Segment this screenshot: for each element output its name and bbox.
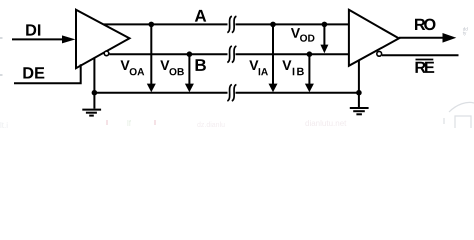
receiver enable bubble xyxy=(377,51,382,56)
DI arrowhead xyxy=(62,35,75,43)
measurement arrow VIA xyxy=(272,24,274,85)
wire RE enable xyxy=(382,54,459,56)
ground symbol receiver xyxy=(350,93,369,115)
junction dot B at VOB xyxy=(187,51,193,57)
measurement arrow VOB xyxy=(188,54,190,85)
wire DI input xyxy=(12,38,64,40)
label A xyxy=(195,10,206,22)
RO arrowhead xyxy=(443,33,457,43)
junction dot B at VIB xyxy=(307,51,313,57)
line A break symbol xyxy=(227,16,236,32)
wire driver ground branch xyxy=(93,57,95,92)
label B xyxy=(196,59,206,71)
label RO xyxy=(415,19,435,31)
ground rail break symbol xyxy=(227,85,236,101)
ground symbol driver xyxy=(82,93,101,116)
label VOB xyxy=(160,60,169,70)
watermark top right xyxy=(463,26,469,35)
watermark bottom right curve xyxy=(444,102,474,128)
measurement arrow VIB xyxy=(308,54,310,85)
label VOD xyxy=(291,28,300,38)
wire RO output xyxy=(399,37,444,39)
junction receiver ground xyxy=(356,90,362,96)
junction driver ground xyxy=(92,90,98,96)
wire receiver ground branch xyxy=(358,60,360,92)
junction dot A at VOD xyxy=(322,22,328,28)
line B break symbol xyxy=(227,46,236,62)
wire line B right segment xyxy=(236,53,349,55)
label DI xyxy=(26,24,40,35)
receiver U2 triangle xyxy=(349,10,399,66)
measurement arrow VOA xyxy=(150,24,152,85)
junction dot A at VIA xyxy=(270,22,276,28)
measurement arrow VOD xyxy=(323,24,325,46)
svg-text:lf: lf xyxy=(127,119,132,128)
junction dot A at VOA xyxy=(149,22,155,28)
wire line B left segment xyxy=(109,53,227,55)
ground rail left segment xyxy=(94,92,227,94)
label VIB xyxy=(282,60,291,70)
watermark left edge dashes xyxy=(0,38,3,75)
svg-text:dz.dianlu: dz.dianlu xyxy=(197,122,225,128)
label RE with overline xyxy=(415,62,434,73)
wire line A right segment xyxy=(236,23,349,25)
label VIA xyxy=(249,60,258,70)
driver inverting output bubble xyxy=(104,51,109,56)
watermark bottom faint text xyxy=(0,119,347,130)
ground rail right segment xyxy=(236,92,359,94)
label DE xyxy=(23,67,44,78)
label VOA xyxy=(121,60,130,70)
driver U1 triangle xyxy=(76,10,130,68)
wire line A left segment xyxy=(104,23,228,25)
svg-text:lt.i: lt.i xyxy=(0,121,8,128)
wire DE input xyxy=(14,64,81,83)
svg-text:dianlutu.net: dianlutu.net xyxy=(305,119,347,128)
